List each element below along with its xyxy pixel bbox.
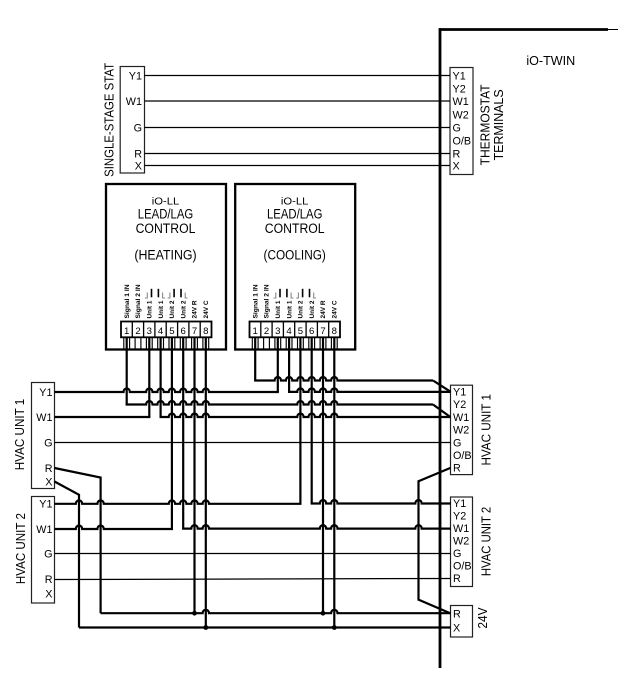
wire heating pin6 run to right HVAC2 W1 <box>182 525 450 529</box>
wire right HVAC1 R down to 24V R <box>419 468 451 614</box>
svg-text:R: R <box>453 608 461 620</box>
svg-text:Unit 2: Unit 2 <box>169 300 176 318</box>
iO-LL COOLING terminal stubs <box>251 337 253 348</box>
svg-text:Signal 2 IN: Signal 2 IN <box>135 284 142 318</box>
iO-LL HEATING control box <box>106 184 226 350</box>
svg-text:CONTROL: CONTROL <box>265 221 325 236</box>
svg-text:1: 1 <box>253 326 258 337</box>
svg-text:W1: W1 <box>126 96 142 108</box>
svg-text:24V C: 24V C <box>203 300 210 318</box>
svg-text:SINGLE-STAGE STAT: SINGLE-STAGE STAT <box>101 63 116 177</box>
svg-text:Signal 1 IN: Signal 1 IN <box>124 284 131 318</box>
svg-text:8: 8 <box>203 326 208 337</box>
single-stage stat terminal box <box>120 67 144 174</box>
left HVAC unit 1 terminal box <box>32 383 55 489</box>
svg-text:24V C: 24V C <box>332 300 339 318</box>
svg-text:W2: W2 <box>453 109 469 121</box>
svg-text:(COOLING): (COOLING) <box>264 248 326 263</box>
wire heating pin7 24V R (vertical) <box>193 338 195 613</box>
svg-text:Unit 2: Unit 2 <box>180 300 187 318</box>
wire cooling pin5 Unit2 contact (vertical) <box>299 338 301 504</box>
svg-text:Y1: Y1 <box>39 387 52 399</box>
svg-text:3: 3 <box>275 326 280 337</box>
wire cooling pin7 24V R (vertical) <box>322 338 324 613</box>
X bus to 24V X <box>79 626 451 628</box>
svg-text:W2: W2 <box>453 425 469 437</box>
svg-text:G: G <box>44 548 52 560</box>
junction dot cooling pin8 on X bus <box>332 625 337 630</box>
svg-text:Unit 1: Unit 1 <box>147 300 154 318</box>
wire cooling pin4 Unit1 contact (vertical) <box>288 338 290 392</box>
wire heating pin4 Unit1 contact (vertical) <box>160 338 162 417</box>
svg-text:LEAD/LAG: LEAD/LAG <box>138 207 193 222</box>
svg-text:X: X <box>45 476 52 488</box>
svg-text:Y2: Y2 <box>453 399 466 411</box>
svg-text:HVAC UNIT 1: HVAC UNIT 1 <box>479 394 494 466</box>
svg-text:2: 2 <box>264 326 269 337</box>
svg-text:R: R <box>453 148 461 160</box>
svg-text:7: 7 <box>320 326 325 337</box>
svg-text:G: G <box>134 122 142 134</box>
svg-text:R: R <box>134 148 142 160</box>
wire cooling pin1 run to right HVAC1 Y1 <box>254 377 433 381</box>
svg-text:iO-LL: iO-LL <box>281 196 309 207</box>
svg-text:G: G <box>453 548 461 560</box>
svg-text:Y2: Y2 <box>453 83 466 95</box>
wire stat R to thermostat R <box>145 153 451 155</box>
wire heating pin1 run to right HVAC1 W1 <box>126 401 433 405</box>
svg-text:HVAC UNIT 1: HVAC UNIT 1 <box>12 399 27 471</box>
svg-text:(HEATING): (HEATING) <box>134 248 196 263</box>
wire left HVAC2 R to right HVAC2 R <box>55 579 451 580</box>
svg-text:X: X <box>45 588 52 600</box>
svg-text:6: 6 <box>309 326 314 337</box>
svg-text:LEAD/LAG: LEAD/LAG <box>267 207 322 222</box>
svg-text:7: 7 <box>192 326 197 337</box>
svg-text:Y2: Y2 <box>453 511 466 523</box>
svg-text:Y1: Y1 <box>453 387 466 399</box>
wire left HVAC2 Y1 to cooling pin5 <box>55 500 302 504</box>
wire left HVAC1 W1 to heating pin3 <box>55 416 151 418</box>
svg-text:Signal 2 IN: Signal 2 IN <box>264 284 271 318</box>
wire heating pin4 run to right HVAC1 W1 <box>160 413 451 417</box>
svg-text:24V: 24V <box>475 607 490 629</box>
svg-text:G: G <box>44 437 52 449</box>
iO-LL HEATING terminal stubs <box>123 337 125 348</box>
wire left HVAC1 Y1 to cooling pin3 <box>55 389 279 393</box>
thermostat terminals box <box>450 68 473 175</box>
svg-text:iO-TWIN: iO-TWIN <box>526 54 575 68</box>
svg-text:X: X <box>453 161 460 173</box>
svg-text:R: R <box>45 574 53 586</box>
svg-text:iO-LL: iO-LL <box>152 196 180 207</box>
right HVAC unit 2 terminal box <box>451 497 473 587</box>
svg-text:Unit 1: Unit 1 <box>286 300 293 318</box>
svg-text:Y1: Y1 <box>453 70 466 82</box>
wire left HVAC1 R down to R bus <box>55 468 101 613</box>
wire cooling pin4 run to right HVAC1 Y1 <box>288 388 451 392</box>
svg-text:X: X <box>135 160 142 172</box>
junction dot heating pin8 on X bus <box>203 625 208 630</box>
wire cooling pin3 Unit1 contact (vertical) <box>277 338 279 392</box>
wire heating pin1 Signal1 IN from iO-TWIN unit1 W1 (vertical) <box>126 338 128 405</box>
svg-text:G: G <box>453 122 461 134</box>
junction dot cooling pin7 on R bus <box>321 611 326 616</box>
svg-text:Unit 2: Unit 2 <box>309 300 316 318</box>
svg-text:4: 4 <box>286 326 292 337</box>
svg-text:4: 4 <box>158 326 164 337</box>
iO-LL COOLING terminal strip 1-8 <box>250 322 341 338</box>
wire heating pin3 Unit1 contact (vertical) <box>148 338 150 417</box>
svg-text:HVAC UNIT 2: HVAC UNIT 2 <box>13 513 28 584</box>
svg-text:W1: W1 <box>453 523 469 535</box>
right HVAC unit 1 terminal box <box>451 385 473 474</box>
svg-text:5: 5 <box>169 326 174 337</box>
svg-text:W1: W1 <box>36 524 52 536</box>
svg-text:2: 2 <box>135 326 140 337</box>
iO-TWIN enclosure border left line <box>439 28 442 668</box>
svg-text:W1: W1 <box>453 96 469 108</box>
wire left HVAC1 G to right HVAC1 G <box>55 442 451 444</box>
svg-text:24V R: 24V R <box>192 300 199 318</box>
wire stat W1 to thermostat W1 <box>145 100 451 102</box>
R bus to 24V R <box>101 610 451 613</box>
wire stat X to thermostat X <box>145 165 451 167</box>
svg-text:HVAC UNIT 2: HVAC UNIT 2 <box>479 507 494 576</box>
svg-text:Unit 1: Unit 1 <box>158 300 165 318</box>
wire cooling pin8 24V C (vertical) <box>333 338 335 628</box>
iO-LL HEATING terminal strip 1-8 <box>121 322 212 338</box>
svg-text:X: X <box>453 622 460 634</box>
svg-text:G: G <box>453 437 461 449</box>
svg-text:24V R: 24V R <box>320 300 327 318</box>
svg-text:R: R <box>453 463 461 475</box>
wire cooling pin6 run to right HVAC2 Y1 <box>311 500 451 504</box>
wire left HVAC2 W1 to heating pin5 <box>55 526 174 530</box>
wire heating pin8 24V C (vertical) <box>205 338 207 628</box>
svg-text:1: 1 <box>124 326 129 337</box>
svg-text:Y1: Y1 <box>39 499 52 511</box>
svg-text:R: R <box>45 463 53 475</box>
wire left HVAC1 X down to X bus <box>55 482 80 628</box>
wire heating pin5 Unit2 contact (vertical) <box>171 338 173 529</box>
svg-text:O/B: O/B <box>453 561 472 573</box>
wire left HVAC2 G to right HVAC2 G <box>55 553 451 555</box>
junction dot heating pin7 on R bus <box>192 611 197 616</box>
svg-text:Unit 1: Unit 1 <box>275 300 282 318</box>
wire cooling pin1 Signal1 IN from iO-TWIN unit1 Y1 (vertical) <box>254 338 256 381</box>
svg-text:CONTROL: CONTROL <box>136 221 196 236</box>
svg-text:TERMINALS: TERMINALS <box>491 89 506 160</box>
svg-text:Y1: Y1 <box>453 498 466 510</box>
wire cooling pin6 Unit2 contact (vertical) <box>311 338 313 504</box>
24V terminal box <box>451 606 473 638</box>
svg-text:Y1: Y1 <box>129 70 142 82</box>
wire heating pin6 Unit2 contact (vertical) <box>182 338 184 529</box>
svg-text:W2: W2 <box>453 536 469 548</box>
iO-LL COOLING control box <box>235 184 355 350</box>
svg-text:W1: W1 <box>453 412 469 424</box>
svg-text:8: 8 <box>332 326 337 337</box>
svg-text:Unit 2: Unit 2 <box>298 300 305 318</box>
wire stat G to thermostat G <box>145 127 451 129</box>
svg-text:W1: W1 <box>36 412 52 424</box>
svg-text:Signal 1 IN: Signal 1 IN <box>252 284 259 318</box>
svg-text:O/B: O/B <box>453 450 472 462</box>
svg-text:5: 5 <box>298 326 303 337</box>
svg-text:3: 3 <box>147 326 152 337</box>
left HVAC unit 2 terminal box <box>32 497 55 604</box>
wire stat Y1 to thermostat Y1 <box>145 75 451 77</box>
svg-text:6: 6 <box>181 326 186 337</box>
iO-TWIN enclosure border top line <box>439 28 608 31</box>
svg-text:R: R <box>453 573 461 585</box>
svg-text:O/B: O/B <box>453 135 472 147</box>
